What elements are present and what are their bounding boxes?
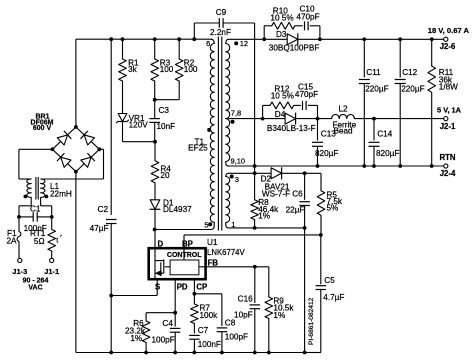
junction: [153, 140, 157, 144]
wire: [229, 165, 446, 167]
svg-text:600 V: 600 V: [33, 125, 52, 132]
junction: [430, 37, 434, 41]
svg-text:30BQ100PBF: 30BQ100PBF: [269, 44, 320, 53]
svg-text:1%: 1%: [130, 334, 142, 343]
svg-text:10 5%: 10 5%: [270, 13, 293, 22]
wire: [154, 210, 156, 230]
junction: [253, 171, 257, 175]
svg-text:EF25: EF25: [188, 144, 208, 153]
svg-text:C3: C3: [159, 106, 170, 115]
terminal J2-4: [439, 153, 455, 178]
zener diode VR1: [116, 114, 148, 130]
svg-text:20: 20: [160, 171, 170, 180]
svg-text:7,8: 7,8: [231, 108, 241, 117]
svg-text:4.7µF: 4.7µF: [323, 293, 344, 302]
svg-text:5Ω: 5Ω: [34, 237, 45, 246]
svg-text:100pF: 100pF: [152, 335, 175, 344]
svg-text:D3: D3: [276, 30, 287, 39]
junction: [173, 311, 177, 315]
svg-text:C7: C7: [198, 326, 209, 335]
svg-text:J2-6: J2-6: [440, 42, 456, 51]
resistor R6: [125, 319, 150, 352]
svg-text:470pF: 470pF: [295, 90, 318, 99]
capacitor C4: [152, 319, 181, 353]
svg-text:J2-1: J2-1: [440, 122, 456, 131]
wire: [123, 122, 155, 142]
svg-text:C5: C5: [324, 276, 335, 285]
wire: [122, 39, 124, 59]
terminal J1-3: [12, 258, 27, 276]
terminal J1-1: [44, 258, 59, 276]
wire: [229, 227, 305, 229]
junction: [316, 164, 320, 168]
transformer T1 bias winding: [226, 173, 239, 229]
resistor R7: [191, 304, 219, 324]
wire: [110, 39, 112, 215]
capacitor C13: [312, 119, 338, 166]
capacitor C2: [90, 205, 117, 233]
polarity dot: [231, 120, 235, 124]
wire: [155, 229, 211, 231]
svg-text:12: 12: [240, 39, 248, 48]
svg-text:DL4937: DL4937: [163, 205, 192, 214]
wire: [183, 235, 185, 248]
junction: [109, 37, 113, 41]
svg-text:C11: C11: [366, 68, 381, 77]
wire: [229, 118, 286, 120]
svg-text:C1: C1: [30, 205, 41, 214]
svg-text:5%: 5%: [327, 204, 339, 213]
wire: [178, 39, 180, 59]
svg-text:CONTROL: CONTROL: [167, 252, 202, 259]
wire: [194, 23, 219, 39]
svg-text:C16: C16: [238, 295, 253, 304]
inductor L2: [332, 105, 357, 136]
wire: [354, 118, 445, 120]
inductor L1: [27, 177, 72, 200]
capacitor C12: [395, 39, 425, 166]
junction: [153, 228, 157, 232]
svg-text:J2-4: J2-4: [440, 169, 456, 178]
svg-text:10 5%: 10 5%: [271, 92, 294, 101]
junction: [398, 164, 402, 168]
wire: [41, 149, 104, 179]
junction: [253, 351, 257, 355]
resistor R1: [119, 59, 139, 82]
wire: [229, 38, 288, 40]
wire: [51, 251, 53, 258]
junction: [192, 37, 196, 41]
wire: [18, 244, 20, 259]
svg-text:220µF: 220µF: [365, 85, 388, 94]
polarity dot: [207, 128, 211, 132]
transformer T1 core: [218, 37, 221, 231]
transformer T1 secondary 78-910: [226, 108, 245, 166]
svg-text:100: 100: [184, 65, 198, 74]
resistor R8: [251, 198, 279, 221]
svg-text:C13: C13: [321, 130, 336, 139]
wire: [19, 149, 53, 179]
resistor R5: [317, 191, 343, 235]
svg-text:3: 3: [235, 175, 239, 184]
terminal J2-6: [428, 26, 470, 51]
svg-text:D4: D4: [275, 110, 286, 119]
wire: [254, 166, 256, 173]
diode D4: [267, 110, 316, 133]
svg-text:120V: 120V: [129, 120, 149, 129]
junction: [303, 351, 307, 355]
svg-text:LNK6774V: LNK6774V: [207, 248, 246, 257]
junction: [253, 164, 257, 168]
junction: [153, 98, 157, 102]
junction: [318, 37, 322, 41]
svg-text:B340LB-13-F: B340LB-13-F: [267, 124, 316, 133]
junction: [109, 351, 113, 355]
capacitor C15: [295, 83, 318, 110]
svg-text:C6: C6: [292, 190, 303, 199]
junction: [121, 37, 125, 41]
svg-text:CP: CP: [196, 283, 207, 292]
svg-text:22µF: 22µF: [286, 206, 305, 215]
svg-text:820µF: 820µF: [376, 149, 399, 158]
terminal J2-1: [437, 105, 462, 131]
resistor R9: [265, 296, 294, 352]
wire r12 loop: [263, 105, 318, 118]
wire: [206, 267, 269, 297]
label PI-6861-082412: [308, 297, 315, 345]
svg-text:10nF: 10nF: [157, 122, 176, 131]
polarity dot: [234, 41, 238, 45]
diode D1: [150, 199, 193, 215]
resistor R11: [428, 39, 458, 166]
junction: [51, 147, 55, 151]
capacitor C3: [149, 100, 175, 142]
wire: [223, 23, 254, 166]
junction: [362, 164, 366, 168]
wire: [298, 38, 446, 40]
svg-text:2A: 2A: [6, 237, 17, 246]
junction: [153, 37, 157, 41]
junction: [316, 117, 320, 121]
junction: [193, 292, 197, 296]
svg-text:J1-1: J1-1: [44, 267, 59, 276]
junction: [109, 294, 113, 298]
junction: [177, 37, 181, 41]
junction: [253, 265, 257, 269]
capacitor C16: [234, 267, 260, 353]
thermistor RT1: [30, 229, 62, 251]
svg-text:100pF: 100pF: [225, 333, 248, 342]
svg-text:10pF: 10pF: [234, 310, 253, 319]
junction: [262, 37, 266, 41]
svg-text:18 V, 0.67 A: 18 V, 0.67 A: [428, 26, 470, 35]
svg-text:470pF: 470pF: [296, 13, 319, 22]
junction: [261, 117, 265, 121]
wire: [184, 234, 321, 236]
wire: [110, 224, 112, 353]
wire: [154, 142, 156, 161]
junction: [372, 117, 376, 121]
junction: [220, 351, 224, 355]
svg-text:1%: 1%: [258, 212, 270, 221]
junction: [98, 147, 102, 151]
svg-text:6: 6: [206, 39, 210, 48]
polarity dot: [45, 195, 49, 199]
polarity dot: [230, 175, 234, 179]
wire: [122, 81, 124, 113]
svg-text:PD: PD: [177, 283, 188, 292]
capacitor C5: [305, 235, 344, 353]
wire r10 loop: [264, 26, 320, 40]
wire: [75, 172, 77, 353]
wire: [154, 183, 156, 200]
svg-text:100k: 100k: [200, 311, 219, 320]
wire: [154, 230, 156, 249]
diode D2: [261, 167, 291, 198]
junction: [267, 351, 271, 355]
wire: [111, 279, 157, 295]
transformer T1 secondary 12-78: [226, 39, 248, 118]
wire: [75, 39, 77, 127]
capacitor C9: [210, 8, 231, 37]
resistor R4: [151, 161, 171, 183]
wire: [41, 198, 52, 217]
svg-text:100nF: 100nF: [24, 224, 47, 233]
bridge rectifier BR1: [31, 114, 100, 172]
svg-text:t: t: [56, 236, 58, 245]
junction: [303, 171, 307, 175]
label input voltage: [23, 277, 49, 291]
diode D3: [269, 30, 320, 53]
junction: [253, 226, 257, 230]
svg-text:100: 100: [160, 65, 174, 74]
wire: [155, 81, 180, 100]
fuse F1: [6, 225, 20, 246]
capacitor C10: [296, 5, 319, 31]
wire: [19, 217, 52, 230]
svg-text:L2: L2: [338, 105, 348, 114]
svg-text:5: 5: [204, 221, 208, 230]
svg-text:9,10: 9,10: [231, 157, 246, 166]
polarity dot: [204, 221, 212, 230]
ic U1 LNK6774V: [149, 238, 246, 292]
wire: [174, 279, 176, 326]
capacitor C8: [217, 319, 248, 353]
wire: [194, 294, 222, 326]
svg-text:1/8W: 1/8W: [439, 83, 458, 92]
wire: [254, 173, 256, 200]
svg-text:100nF: 100nF: [198, 340, 221, 349]
svg-text:C2: C2: [98, 205, 109, 214]
svg-text:5 V, 1A: 5 V, 1A: [437, 105, 462, 114]
junction: [362, 37, 366, 41]
resistor R3: [151, 59, 174, 82]
svg-text:C4: C4: [162, 319, 173, 328]
svg-text:C9: C9: [216, 8, 227, 17]
junction: [144, 351, 148, 355]
wire: [193, 324, 195, 334]
wire: [193, 279, 195, 304]
svg-text:C14: C14: [377, 130, 392, 139]
svg-text:1%: 1%: [273, 311, 285, 320]
svg-text:90 - 264: 90 - 264: [23, 277, 49, 284]
junction: [74, 170, 78, 174]
wire: [254, 220, 256, 228]
svg-text:22mH: 22mH: [50, 189, 72, 198]
junction: [430, 164, 434, 168]
svg-text:PI-6861-082412: PI-6861-082412: [308, 297, 315, 345]
wire: [282, 173, 321, 190]
svg-text:C12: C12: [402, 68, 417, 77]
junction: [193, 351, 197, 355]
transformer T1 primary: [188, 39, 214, 230]
wire: [146, 313, 175, 321]
junction: [372, 164, 376, 168]
junction: [50, 215, 54, 219]
svg-text:47µF: 47µF: [90, 224, 109, 233]
wire: [304, 228, 306, 353]
svg-text:2.2nF: 2.2nF: [210, 28, 231, 37]
svg-text:C8: C8: [225, 319, 236, 328]
svg-text:820µF: 820µF: [315, 149, 338, 158]
resistor R2: [175, 59, 198, 82]
junction: [74, 125, 78, 129]
capacitor C7: [189, 326, 221, 353]
svg-text:Bead: Bead: [333, 126, 353, 135]
svg-text:220µF: 220µF: [401, 85, 424, 94]
junction: [17, 215, 21, 219]
capacitor C11: [359, 39, 389, 166]
wire: [229, 172, 272, 174]
svg-text:J1-3: J1-3: [12, 267, 27, 276]
wire: [296, 118, 332, 120]
svg-text:D: D: [158, 239, 164, 248]
svg-text:U1: U1: [207, 238, 218, 247]
capacitor C1: [19, 205, 52, 234]
wire: [76, 38, 212, 40]
capacitor C14: [369, 119, 400, 166]
capacitor C6: [286, 173, 310, 228]
junction: [319, 233, 323, 237]
resistor R12: [270, 85, 294, 109]
junction: [173, 351, 177, 355]
junction: [398, 37, 402, 41]
wire: [76, 352, 321, 354]
resistor R10: [270, 7, 294, 30]
junction: [303, 226, 307, 230]
polarity dot: [24, 195, 28, 199]
wire: [154, 39, 156, 59]
svg-text:RTN: RTN: [439, 153, 455, 162]
svg-text:3k: 3k: [128, 65, 138, 74]
svg-text:VAC: VAC: [28, 285, 42, 292]
wire: [19, 198, 31, 217]
